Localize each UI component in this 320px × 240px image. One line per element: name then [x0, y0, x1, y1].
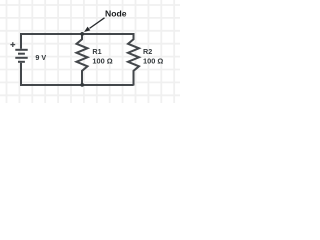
svg-text:9 V: 9 V [35, 53, 46, 62]
svg-text:Node: Node [105, 8, 127, 18]
grid [0, 0, 180, 103]
resistor R2 [128, 33, 139, 86]
node junction dot bottom [80, 83, 84, 87]
battery V1 9 V [15, 50, 27, 62]
svg-text:R1: R1 [92, 47, 101, 56]
node junction dot top [80, 32, 84, 36]
resistor R1 [77, 33, 88, 86]
svg-text:R2: R2 [143, 47, 152, 56]
battery plus sign [10, 42, 15, 47]
annotation arrow to node [84, 18, 105, 32]
wire battery top lead [20, 33, 22, 49]
wire top rail [20, 33, 134, 35]
wire battery bottom lead [20, 63, 22, 86]
wire bottom rail [20, 84, 134, 86]
svg-text:100 Ω: 100 Ω [92, 56, 112, 65]
svg-text:100 Ω: 100 Ω [143, 56, 163, 65]
